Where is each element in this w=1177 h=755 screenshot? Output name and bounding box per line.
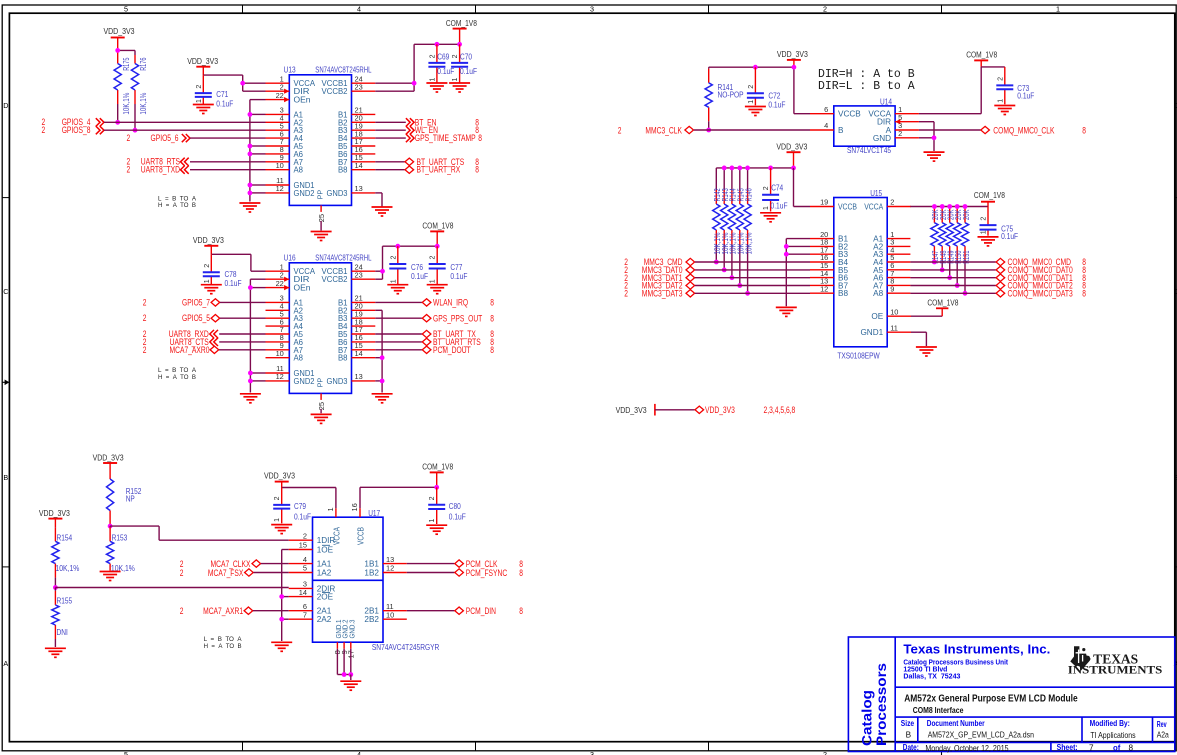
- svg-text:1: 1: [1056, 5, 1060, 14]
- svg-text:8: 8: [1082, 125, 1086, 135]
- svg-text:VCCB: VCCB: [838, 110, 861, 119]
- port PCM_DOUT: [375, 349, 422, 351]
- wire COM rail to VCCB1/VCCB2 U16: [383, 245, 438, 247]
- port WLAN_IRQ: [375, 301, 422, 303]
- svg-text:C70: C70: [460, 52, 472, 61]
- ground under R155: [45, 648, 66, 657]
- wire R154/R155 to 2DIR: [55, 587, 288, 589]
- power VDD_3V3 (U16): [204, 245, 218, 247]
- svg-text:NO-POP: NO-POP: [718, 91, 745, 100]
- svg-text:19: 19: [820, 198, 828, 207]
- svg-text:C: C: [3, 287, 8, 296]
- svg-text:2: 2: [624, 288, 628, 298]
- svg-text:A2a: A2a: [1157, 730, 1169, 739]
- svg-text:PCM_FSYNC: PCM_FSYNC: [466, 568, 508, 578]
- svg-text:0.1uF: 0.1uF: [460, 67, 477, 76]
- svg-text:UART8_TXD: UART8_TXD: [141, 165, 180, 175]
- svg-text:PCM_DIN: PCM_DIN: [466, 606, 496, 616]
- svg-text:COM8 Interface: COM8 Interface: [913, 705, 964, 715]
- svg-text:1: 1: [997, 99, 1004, 103]
- svg-text:C80: C80: [449, 502, 461, 511]
- svg-text:1: 1: [274, 518, 281, 522]
- power VDD_3V3 (R175/R176): [111, 37, 125, 39]
- svg-text:U17: U17: [368, 509, 380, 518]
- port GPS_PPS_OUT: [375, 317, 422, 319]
- title block: [848, 637, 1174, 752]
- power COM_1V8 (C69/C70): [453, 28, 467, 30]
- svg-text:Dallas, TX 75243: Dallas, TX 75243: [903, 672, 960, 681]
- ground symbol U16 bus: [240, 394, 261, 403]
- DIR/GND tied to ground: [919, 121, 934, 123]
- svg-text:8: 8: [490, 345, 494, 355]
- svg-text:SN74LVC1T45: SN74LVC1T45: [847, 146, 891, 155]
- port BT_UART_CTS: [375, 161, 404, 163]
- svg-text:2,3,4,5,6,8: 2,3,4,5,6,8: [764, 405, 796, 415]
- svg-text:TXS0108EPW: TXS0108EPW: [837, 351, 880, 360]
- resistor R149: [949, 207, 951, 209]
- wire R152/R153 to 1DIR: [110, 525, 159, 527]
- svg-text:VDD_3V3: VDD_3V3: [264, 471, 295, 481]
- svg-text:10K,1%: 10K,1%: [122, 93, 131, 115]
- svg-text:1: 1: [390, 279, 397, 283]
- svg-text:U14: U14: [880, 98, 892, 107]
- svg-text:MCA7_AXR1: MCA7_AXR1: [203, 606, 243, 616]
- svg-text:Texas Instruments, Inc.: Texas Instruments, Inc.: [903, 642, 1050, 656]
- svg-text:VCCB: VCCB: [357, 527, 366, 545]
- svg-text:GND3: GND3: [327, 377, 348, 386]
- resistor R144: [731, 168, 733, 190]
- port BT_UART_TX: [375, 333, 422, 335]
- svg-text:GND2: GND2: [294, 377, 315, 386]
- svg-text:R153: R153: [112, 534, 128, 543]
- svg-text:COM_1V8: COM_1V8: [422, 461, 453, 471]
- svg-text:3: 3: [590, 750, 594, 755]
- svg-text:WLAN_IRQ: WLAN_IRQ: [433, 297, 468, 307]
- svg-text:4: 4: [357, 750, 361, 755]
- svg-text:Sheet:: Sheet:: [1057, 743, 1078, 752]
- svg-text:8: 8: [478, 133, 482, 143]
- svg-text:R155: R155: [57, 597, 73, 606]
- ground under C69: [426, 83, 447, 92]
- svg-text:COM_1V8: COM_1V8: [927, 297, 958, 307]
- port BT_UART_RTS: [375, 341, 422, 343]
- svg-text:R176: R176: [139, 57, 148, 70]
- svg-text:GPIO5_7: GPIO5_7: [182, 297, 210, 307]
- port PCM_CLK: [407, 563, 455, 565]
- svg-text:2: 2: [143, 313, 147, 323]
- svg-text:1: 1: [430, 279, 437, 283]
- port COMQ_MMC0_DAT2: [910, 285, 995, 287]
- svg-text:TI Applications: TI Applications: [1090, 731, 1135, 740]
- svg-text:AM572X_GP_EVM_LCD_A2a.dsn: AM572X_GP_EVM_LCD_A2a.dsn: [928, 730, 1035, 739]
- capacitor C74: [768, 166, 773, 171]
- svg-text:2: 2: [180, 568, 184, 578]
- ground under C75: [978, 237, 999, 246]
- svg-text:3: 3: [590, 5, 594, 14]
- svg-text:C77: C77: [450, 263, 462, 272]
- svg-text:NP: NP: [126, 495, 136, 504]
- svg-text:Rev: Rev: [1157, 720, 1167, 729]
- ground under R153: [100, 572, 121, 581]
- svg-text:R154: R154: [57, 534, 73, 543]
- port PCM_DIN: [407, 610, 455, 612]
- svg-text:C79: C79: [294, 502, 306, 511]
- svg-text:C: C: [1174, 287, 1177, 296]
- power COM_1V8 (U17/C80): [430, 471, 444, 473]
- svg-text:D: D: [3, 101, 8, 110]
- power VDD_3V3 (R154): [48, 518, 62, 520]
- svg-text:1: 1: [429, 78, 436, 82]
- resistor R147: [933, 207, 935, 209]
- svg-text:R175: R175: [122, 57, 131, 70]
- ground U17 pins: [340, 681, 361, 690]
- svg-text:2: 2: [196, 85, 203, 89]
- svg-text:0.1uF: 0.1uF: [771, 202, 788, 211]
- svg-text:2: 2: [143, 345, 147, 355]
- port PCM_FSYNC: [407, 572, 455, 574]
- svg-text:2: 2: [429, 54, 436, 58]
- svg-text:8: 8: [475, 165, 479, 175]
- svg-text:U13: U13: [284, 66, 296, 75]
- ground under C80: [426, 525, 447, 534]
- svg-text:9: 9: [890, 284, 894, 293]
- svg-text:8: 8: [519, 606, 523, 616]
- svg-text:VCCB: VCCB: [838, 203, 857, 212]
- svg-text:C78: C78: [225, 270, 237, 279]
- ground under C73: [994, 106, 1015, 115]
- ground symbol B1 bus: [776, 307, 797, 316]
- ground under C77: [427, 285, 448, 294]
- svg-text:2A2: 2A2: [317, 615, 332, 624]
- resistor R143: [723, 168, 725, 190]
- svg-text:A8: A8: [294, 166, 304, 175]
- svg-text:GPS_TIME_STAMP: GPS_TIME_STAMP: [415, 133, 476, 143]
- TI logo: [1070, 646, 1090, 671]
- ground under C74: [760, 213, 781, 222]
- svg-text:2: 2: [823, 5, 827, 14]
- resistor R152 NP: [109, 471, 111, 479]
- capacitor C75: [987, 207, 989, 226]
- svg-text:MMC3_CLK: MMC3_CLK: [645, 125, 682, 135]
- svg-text:2OE: 2OE: [317, 593, 334, 602]
- grounded B2/B8/GND3 bus: [375, 309, 382, 311]
- svg-text:VCCB2: VCCB2: [322, 87, 348, 96]
- svg-text:2: 2: [997, 77, 1004, 81]
- ground bus (OEn,A1,A5,A6,GND1,GND2): [250, 99, 266, 101]
- svg-text:1: 1: [981, 230, 988, 234]
- IC U14 SN74LVC1T45: [834, 106, 895, 146]
- GND pins joined to ground: [336, 649, 338, 675]
- svg-text:10: 10: [276, 161, 284, 170]
- svg-text:22: 22: [276, 91, 284, 100]
- svg-text:OEn: OEn: [294, 96, 311, 105]
- svg-text:COM_1V8: COM_1V8: [974, 190, 1005, 200]
- port COMQ_MMC0_DAT3: [910, 292, 995, 294]
- svg-text:1B2: 1B2: [364, 569, 379, 578]
- power VDD_3V3 (R152): [103, 462, 117, 464]
- svg-text:GPIO5_5: GPIO5_5: [182, 313, 210, 323]
- svg-text:Size: Size: [901, 719, 915, 728]
- svg-text:10K,1%: 10K,1%: [55, 564, 79, 573]
- svg-text:COM_1V8: COM_1V8: [446, 18, 477, 28]
- svg-text:MCA7_AXR0: MCA7_AXR0: [170, 345, 210, 355]
- resistor R153: [109, 526, 111, 527]
- svg-text:A8: A8: [294, 354, 304, 363]
- capacitor C73: [1004, 67, 1006, 86]
- svg-text:2: 2: [748, 85, 755, 89]
- svg-text:AM572x General Purpose EVM LCD: AM572x General Purpose EVM LCD Module: [904, 694, 1078, 705]
- capacitor C77: [435, 244, 440, 249]
- svg-text:2B2: 2B2: [364, 615, 379, 624]
- svg-text:12: 12: [276, 184, 284, 193]
- svg-text:2: 2: [890, 198, 894, 207]
- capacitor C72: [753, 65, 758, 70]
- svg-text:GPS_PPS_OUT: GPS_PPS_OUT: [433, 313, 483, 323]
- svg-text:B: B: [3, 473, 8, 482]
- port COMQ_MMC0_DAT0: [910, 269, 995, 271]
- PP pin 25 ground U16: [320, 409, 322, 413]
- svg-text:5: 5: [124, 5, 128, 14]
- svg-text:Date:: Date:: [903, 743, 919, 752]
- svg-text:1: 1: [748, 100, 755, 104]
- svg-text:MCA7_FSX: MCA7_FSX: [208, 568, 244, 578]
- svg-text:2: 2: [127, 133, 131, 143]
- svg-text:C69: C69: [437, 52, 449, 61]
- svg-text:H = A TO B: H = A TO B: [204, 643, 242, 650]
- svg-text:14: 14: [355, 349, 363, 358]
- svg-text:2: 2: [763, 186, 770, 190]
- svg-text:VDD_3V3: VDD_3V3: [193, 235, 224, 245]
- svg-text:10K,1%: 10K,1%: [744, 233, 753, 255]
- svg-text:13: 13: [355, 184, 363, 193]
- svg-text:VDD_3V3: VDD_3V3: [39, 508, 70, 518]
- power VDD_3V3 (U17): [275, 481, 289, 483]
- svg-text:DNI: DNI: [57, 628, 68, 637]
- power COM_1V8 (U14/C73): [974, 59, 988, 61]
- svg-text:SN74AVC8T245RHL: SN74AVC8T245RHL: [315, 66, 372, 75]
- svg-text:VDD_3V3: VDD_3V3: [104, 26, 135, 36]
- capacitor C69: [435, 42, 440, 47]
- svg-text:0.1uF: 0.1uF: [225, 279, 242, 288]
- IC U17 SN74AVC4T245RGYR: [313, 517, 384, 642]
- ground under C70: [449, 83, 470, 92]
- svg-text:Document Number: Document Number: [927, 719, 985, 728]
- IC U13 SN74AVC8T245RHL: [289, 75, 351, 206]
- svg-text:C72: C72: [768, 91, 780, 100]
- ground symbol OEn bus: [239, 203, 260, 212]
- ground bus 1OE/2OE/2A2: [282, 549, 289, 551]
- resistor R1411: [964, 207, 966, 209]
- port GPS_TIME_STAMP: [375, 137, 406, 139]
- resistor R145: [739, 168, 741, 190]
- capacitor C70: [457, 42, 462, 47]
- OE to COM_1V8: [911, 315, 942, 317]
- svg-text:0.1uF: 0.1uF: [1001, 232, 1018, 241]
- svg-text:DIR=L : B to A: DIR=L : B to A: [818, 80, 915, 93]
- svg-text:PCM_DOUT: PCM_DOUT: [433, 345, 471, 355]
- svg-text:1A1: 1A1: [317, 560, 332, 569]
- port BT_UART_RX: [375, 169, 404, 171]
- ground symbol U14: [924, 152, 945, 161]
- svg-text:COM_1V8: COM_1V8: [966, 50, 997, 60]
- svg-text:GND3: GND3: [327, 189, 348, 198]
- svg-text:VDD_3V3: VDD_3V3: [616, 405, 647, 415]
- svg-text:COMQ_MMC0_DAT3: COMQ_MMC0_DAT3: [1008, 288, 1073, 298]
- svg-text:C71: C71: [216, 90, 228, 99]
- svg-text:0.1uF: 0.1uF: [768, 101, 785, 110]
- ground under C76: [387, 285, 408, 294]
- resistor R148: [941, 207, 943, 209]
- svg-text:of: of: [1113, 744, 1121, 753]
- svg-text:GND.3: GND.3: [347, 620, 356, 639]
- svg-text:2: 2: [127, 165, 131, 175]
- svg-text:0.1uF: 0.1uF: [1017, 92, 1034, 101]
- svg-text:VCCA: VCCA: [864, 203, 883, 212]
- svg-text:23: 23: [355, 270, 363, 279]
- svg-text:7: 7: [1089, 744, 1094, 753]
- svg-text:GPIOS_8: GPIOS_8: [62, 125, 91, 135]
- resistor R146: [747, 168, 749, 190]
- svg-text:L = B TO A: L = B TO A: [158, 367, 196, 374]
- svg-text:1A2: 1A2: [317, 569, 332, 578]
- svg-text:OE: OE: [871, 312, 883, 321]
- svg-text:5: 5: [124, 750, 128, 755]
- wire COM rail to VCCB1/VCCB2: [414, 43, 460, 45]
- junction dots R175/R176: [115, 48, 120, 53]
- svg-text:1: 1: [452, 78, 459, 82]
- capacitor C78: [210, 254, 212, 272]
- svg-text:B8: B8: [338, 166, 348, 175]
- svg-text:1: 1: [204, 279, 211, 283]
- capacitor C80: [436, 487, 438, 505]
- svg-text:INSTRUMENTS: INSTRUMENTS: [1068, 663, 1163, 676]
- resistor R175: [117, 50, 119, 63]
- svg-text:4: 4: [303, 555, 307, 564]
- resistor R155 DNI: [54, 588, 56, 591]
- GND1 to ground: [911, 331, 926, 333]
- wire VDD to VCCA: [282, 487, 336, 489]
- svg-text:Processors: Processors: [874, 663, 890, 746]
- svg-text:2: 2: [981, 217, 988, 221]
- svg-text:2: 2: [274, 496, 281, 500]
- svg-text:2: 2: [898, 129, 902, 138]
- svg-text:GND1: GND1: [860, 328, 883, 337]
- svg-text:2: 2: [823, 750, 827, 755]
- svg-text:U15: U15: [870, 189, 882, 198]
- svg-text:2: 2: [618, 125, 622, 135]
- wire COM to VCCA and C73: [980, 67, 982, 114]
- svg-text:7: 7: [303, 610, 307, 619]
- wire COM to VCCB: [360, 486, 437, 488]
- svg-text:4: 4: [824, 121, 828, 130]
- svg-text:MMC3_DAT3: MMC3_DAT3: [642, 288, 683, 298]
- resistor R1410: [956, 207, 958, 209]
- port WL_EN: [375, 129, 406, 131]
- svg-text:0.1uF: 0.1uF: [294, 512, 311, 521]
- svg-text:H = A TO B: H = A TO B: [158, 374, 196, 381]
- svg-text:1: 1: [763, 206, 770, 210]
- svg-text:5: 5: [303, 564, 307, 573]
- svg-text:PP: PP: [316, 190, 325, 200]
- svg-text:GND: GND: [873, 134, 891, 143]
- ground bus (DIR,OEn,GND1,GND2): [250, 278, 265, 280]
- svg-text:15: 15: [299, 541, 307, 550]
- svg-text:1OE: 1OE: [317, 546, 334, 555]
- IC U15 TXS0108EPW: [834, 198, 887, 347]
- svg-text:0.1uF: 0.1uF: [216, 100, 233, 109]
- svg-text:B8: B8: [838, 289, 848, 298]
- svg-text:H = A TO B: H = A TO B: [158, 202, 196, 209]
- svg-text:8: 8: [1129, 744, 1134, 753]
- svg-text:VDD_3V3: VDD_3V3: [777, 49, 808, 59]
- VCCA rail with pullups R147-R151: [910, 206, 988, 208]
- svg-text:10K,1%: 10K,1%: [139, 93, 148, 115]
- svg-text:2: 2: [42, 125, 46, 135]
- svg-text:VDD_3V3: VDD_3V3: [776, 141, 807, 151]
- svg-text:1: 1: [196, 99, 203, 103]
- svg-text:2: 2: [390, 256, 397, 260]
- power VDD_3V3 (U13 VCCA): [196, 66, 210, 68]
- svg-text:2: 2: [430, 256, 437, 260]
- svg-text:B8: B8: [338, 354, 348, 363]
- svg-text:22: 22: [276, 279, 284, 288]
- svg-text:23: 23: [355, 82, 363, 91]
- VDD rail with pullups R142-R146: [716, 167, 793, 169]
- svg-text:10: 10: [386, 610, 394, 619]
- wire VDD to VCCA: [211, 253, 251, 255]
- svg-text:1: 1: [326, 507, 335, 511]
- PP pin 25 ground: [320, 221, 322, 231]
- svg-text:12: 12: [820, 284, 828, 293]
- svg-text:COM_1V8: COM_1V8: [422, 220, 453, 230]
- ground under C71: [193, 105, 214, 114]
- ground under C78: [201, 285, 222, 294]
- svg-text:16: 16: [350, 503, 359, 511]
- wire VDD rail to VCCB: [709, 66, 794, 68]
- grounded B1-B3 bus: [786, 238, 810, 240]
- svg-text:SN74AVC4T245RGYR: SN74AVC4T245RGYR: [372, 643, 439, 652]
- GND3 to ground: [375, 192, 382, 194]
- svg-text:6: 6: [824, 105, 828, 114]
- svg-text:2: 2: [180, 606, 184, 616]
- svg-text:2: 2: [429, 496, 436, 500]
- svg-text:VDD_3V3: VDD_3V3: [705, 405, 735, 415]
- svg-text:U16: U16: [284, 254, 296, 263]
- power VDD_3V3 (U15): [787, 151, 801, 153]
- svg-text:0.1uF: 0.1uF: [449, 512, 466, 521]
- ground under C72: [745, 107, 766, 116]
- svg-text:VCCB2: VCCB2: [322, 275, 348, 284]
- svg-text:2: 2: [204, 264, 211, 268]
- port BT_EN: [375, 121, 406, 123]
- svg-text:BT_UART_RX: BT_UART_RX: [417, 165, 461, 175]
- svg-text:GPIO5_6: GPIO5_6: [151, 133, 179, 143]
- svg-text:0.1uF: 0.1uF: [437, 67, 454, 76]
- svg-text:1: 1: [429, 519, 436, 523]
- power COM_1V8 (C76/C77): [430, 230, 444, 232]
- svg-text:14: 14: [299, 588, 307, 597]
- svg-text:11: 11: [890, 323, 898, 332]
- svg-text:4: 4: [357, 5, 361, 14]
- svg-text:SN74AVC8T245RHL: SN74AVC8T245RHL: [315, 254, 372, 263]
- svg-text:10: 10: [276, 349, 284, 358]
- svg-text:Modified By:: Modified By:: [1090, 719, 1130, 728]
- svg-text:8: 8: [490, 297, 494, 307]
- svg-text:20K: 20K: [962, 209, 971, 220]
- svg-text:12: 12: [386, 564, 394, 573]
- resistor R176: [118, 49, 135, 51]
- capacitor C76: [395, 244, 400, 249]
